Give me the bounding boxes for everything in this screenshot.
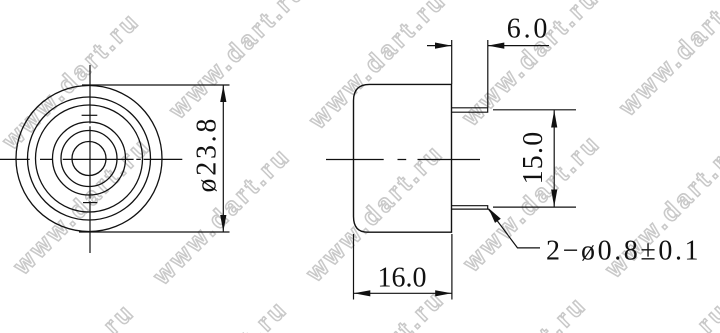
terminal mark top (front view) (82, 114, 98, 116)
front view circle 4 (53, 122, 126, 195)
dim 15.0 arrow down (551, 190, 557, 207)
terminal mark bottom (front view) (83, 202, 97, 204)
dim 6.0 arrow right-pointing (435, 43, 452, 49)
dim 6.0 extension line at pin tip (487, 40, 489, 108)
svg-text:15.0: 15.0 (518, 131, 549, 185)
dim 16.0 extension line right (451, 234, 453, 300)
dim φ23.8 arrow up (220, 86, 226, 103)
dim 6.0 extension line at body edge (451, 40, 453, 84)
front view circle 5 (61, 131, 117, 187)
dim 15.0 arrow up (551, 110, 557, 127)
front view horizontal center line (0, 158, 182, 160)
front view inner circle (72, 142, 106, 176)
dim 16.0 dimension line (354, 292, 452, 294)
front view circle 3 (36, 105, 143, 212)
watermark stripe 7 (586, 0, 720, 333)
leader line for pin diameter (488, 209, 540, 248)
watermark stripe 4 (145, 0, 720, 333)
dim 6.0 dimension line right part (488, 45, 549, 47)
bottom pin (lead) (452, 206, 488, 209)
dim 6.0 dimension line left part (427, 45, 452, 47)
svg-text:2−ø0.8±0.1: 2−ø0.8±0.1 (546, 236, 701, 267)
side view horizontal center line (326, 159, 480, 161)
front view outer circle (case rim) (16, 86, 162, 232)
watermark stripe 5 (302, 0, 720, 333)
svg-text:6.0: 6.0 (507, 14, 550, 45)
dim φ23.8 extension line top (82, 84, 230, 86)
dim 16.0 arrow left-pointing (354, 290, 371, 296)
svg-text:ø23.8: ø23.8 (191, 116, 222, 193)
dim 16.0 extension line left (353, 234, 355, 300)
dim φ23.8 arrow down (220, 215, 226, 232)
dim 15.0 dimension line (553, 110, 555, 207)
dim 15.0 extension line bottom (493, 206, 576, 208)
svg-text:16.0: 16.0 (378, 263, 427, 294)
dim φ23.8 extension line bottom (79, 231, 230, 233)
side view body outline (354, 84, 452, 232)
watermark stripe 6 (444, 0, 720, 333)
dim 6.0 arrow left-pointing (488, 43, 505, 49)
dim φ23.8 dimension line (222, 86, 224, 232)
front view circle 2 (28, 97, 151, 220)
dim 16.0 arrow right-pointing (435, 290, 452, 296)
top pin (lead) (452, 108, 488, 112)
leader arrowhead (488, 208, 500, 223)
watermark stripe 2 (8, 0, 468, 280)
front view vertical center line (89, 65, 91, 253)
dim 15.0 extension line top (493, 109, 576, 111)
watermark stripe 1 (0, 0, 457, 155)
